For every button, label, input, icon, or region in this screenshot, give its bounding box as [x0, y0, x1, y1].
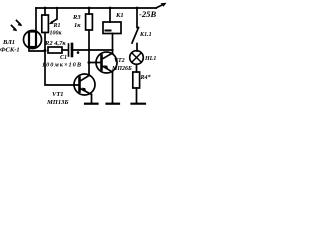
- transistor VT1 emitter: [80, 89, 91, 95]
- wire VT2 emitter to ground: [112, 72, 114, 103]
- junction dot at VT2 collector: [111, 49, 113, 51]
- transistor VT2 collector: [102, 53, 112, 59]
- wire R4 to ground: [136, 88, 138, 103]
- relay K1 inner mark: [106, 30, 111, 32]
- rail junction dots: [44, 7, 47, 10]
- svg-text:ВЛ1: ВЛ1: [2, 39, 15, 46]
- potentiometer R1 body: [42, 15, 49, 33]
- ground under VT1: [85, 103, 98, 105]
- svg-text:VT2: VT2: [114, 58, 125, 64]
- svg-text:К1.1: К1.1: [139, 32, 152, 38]
- junction dot at R3/VT1 collector to VT2 base: [88, 61, 91, 64]
- relay K1 top lead: [109, 8, 111, 22]
- svg-text:R1: R1: [53, 23, 61, 29]
- resistor R3 top lead: [88, 8, 90, 14]
- photoresistor BL1 inner resistor body: [29, 32, 36, 48]
- transistor VT2 base bar: [100, 56, 103, 70]
- wire R2 to C1: [62, 49, 68, 51]
- svg-text:К1: К1: [115, 12, 124, 19]
- relay K1 coil body: [103, 22, 121, 34]
- light arrow 1: [17, 21, 21, 25]
- svg-text:R2 4,7к: R2 4,7к: [44, 40, 66, 47]
- svg-text:VT1: VT1: [52, 91, 64, 98]
- VT1 emitter arrowhead (PNP): [82, 88, 87, 93]
- transistor VT1 collector: [80, 76, 89, 82]
- svg-text:ФСК-1: ФСК-1: [0, 47, 20, 54]
- svg-text:1к: 1к: [74, 22, 81, 29]
- relay contact K1.1 blade: [132, 28, 139, 44]
- wire lamp to R4: [136, 64, 138, 72]
- svg-text:100к: 100к: [50, 31, 63, 37]
- ground under VT2: [107, 103, 120, 105]
- resistor R3 body: [86, 14, 93, 30]
- potentiometer R1 bottom lead: [44, 33, 46, 52]
- potentiometer R1 top lead: [44, 8, 46, 15]
- supply arrowhead: [161, 3, 167, 7]
- wire top supply rail: [36, 7, 156, 9]
- lamp HL1 circle: [130, 51, 144, 65]
- photoresistor BL1 top lead wire: [35, 8, 37, 30]
- wire VT2 base from R3 node: [89, 62, 101, 64]
- svg-text:С1: С1: [60, 55, 67, 61]
- wire VT2 collector up to relay: [112, 34, 114, 54]
- capacitor C1 right plate: [71, 44, 74, 56]
- supply arrow -25V terminal: [156, 4, 164, 8]
- wire C1 to VT2 collector node (feedback): [74, 49, 113, 51]
- svg-text:МП13Б: МП13Б: [46, 99, 68, 106]
- capacitor C1 left plate: [68, 44, 70, 56]
- resistor R2 body: [48, 47, 62, 53]
- svg-text:R3: R3: [72, 14, 81, 21]
- crossing blob at R3 line: [88, 49, 90, 51]
- svg-text:100мк×10В: 100мк×10В: [42, 62, 82, 69]
- resistor R4 body: [133, 72, 140, 88]
- svg-text:МП26Б: МП26Б: [111, 66, 132, 72]
- wire VT1 emitter to ground: [91, 95, 93, 104]
- svg-text:R4*: R4*: [140, 74, 152, 81]
- ground under R4: [132, 103, 146, 105]
- transistor VT1 circle: [74, 74, 95, 95]
- potentiometer R1 wiper wire from rail: [52, 8, 58, 23]
- wire node A down to VT1 base: [45, 51, 78, 85]
- svg-text:HL1: HL1: [144, 56, 156, 62]
- wire BL1 bottom lead to node A: [29, 48, 45, 52]
- contact lower stub: [136, 44, 138, 52]
- lamp branch wire from rail: [136, 8, 138, 28]
- photoresistor BL1 circle: [24, 31, 42, 49]
- transistor VT2 emitter: [102, 66, 112, 72]
- small polarity dot: [77, 51, 80, 54]
- resistor R3 bottom lead down to VT1 collector: [88, 30, 90, 76]
- VT2 emitter arrowhead (PNP): [104, 65, 109, 70]
- lamp HL1 cross: [132, 53, 142, 63]
- light arrow 2: [12, 26, 16, 30]
- node A junction dot: [44, 49, 47, 52]
- transistor VT2 circle: [96, 52, 117, 73]
- transistor VT1 base bar: [78, 78, 81, 92]
- svg-text:-25В: -25В: [139, 9, 156, 19]
- wiper arrowhead: [49, 21, 54, 25]
